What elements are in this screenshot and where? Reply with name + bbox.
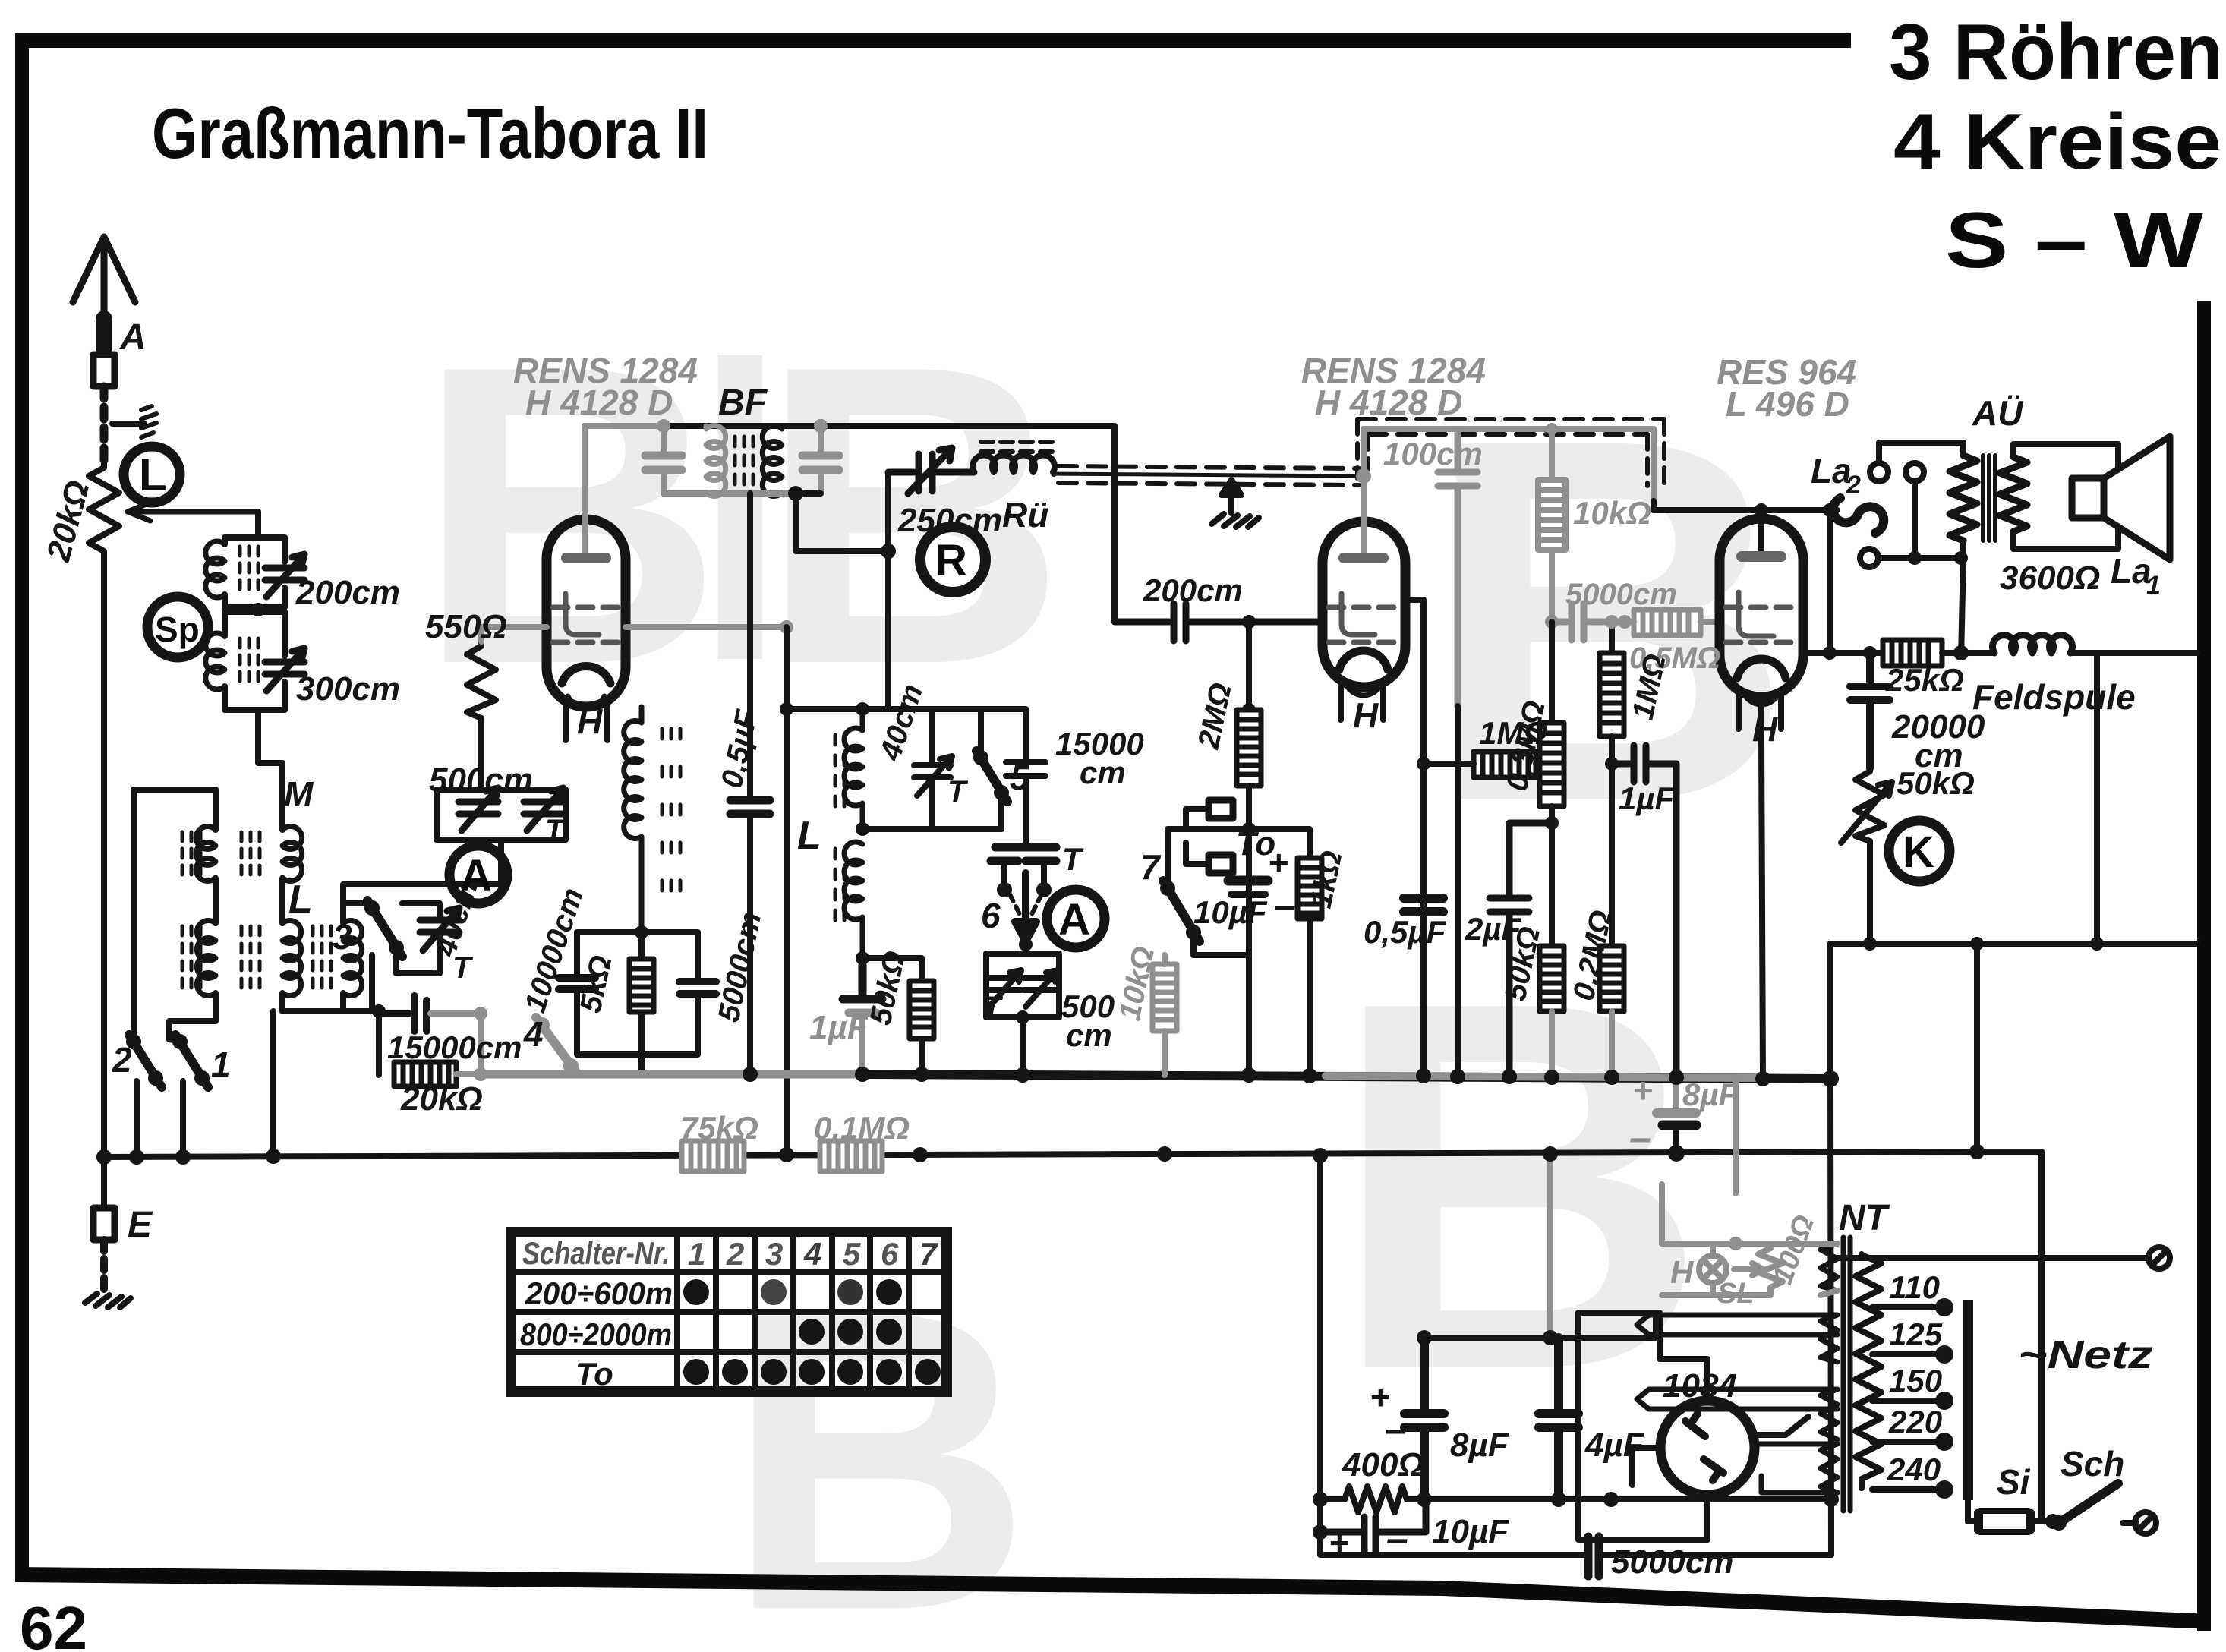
svg-text:0,5µF: 0,5µF bbox=[1364, 914, 1447, 950]
NT core bbox=[1843, 1237, 1850, 1511]
BF core dashes bbox=[735, 437, 753, 484]
third coil core dashes bbox=[313, 926, 331, 988]
svg-text:3 Röhren: 3 Röhren bbox=[1889, 8, 2223, 96]
tube U2 RENS1284 envelope bbox=[1323, 522, 1405, 687]
capacitor 0,5uF bbox=[730, 800, 770, 814]
NT primary winding g3 bbox=[1821, 1389, 1837, 1439]
fuse Si bbox=[1968, 1500, 2050, 1531]
resistor 10kOhm gray (To) bbox=[1152, 964, 1177, 1031]
coil M sec core dashes bbox=[241, 832, 260, 875]
svg-text:20kΩ: 20kΩ bbox=[39, 477, 96, 566]
bus junction dots bbox=[743, 1067, 758, 1082]
trimmer 40cm (at switch 3) bbox=[420, 908, 459, 951]
wire coil-ground vertical bbox=[270, 1011, 276, 1156]
capacitor 20000cm bbox=[1850, 653, 1890, 768]
La2 jack 2 bbox=[1906, 463, 1924, 481]
rectifier filament links bbox=[1754, 1444, 1837, 1493]
svg-text:250cm: 250cm bbox=[897, 502, 1002, 539]
NT bottom exit bbox=[1828, 1500, 1834, 1555]
svg-text:5000cm: 5000cm bbox=[1565, 578, 1677, 611]
svg-text:1µF: 1µF bbox=[1619, 780, 1676, 816]
NT primary winding g4 bbox=[1821, 1444, 1837, 1493]
screen gray wire U1 bbox=[626, 624, 787, 630]
capacitor 200cm bbox=[1115, 604, 1323, 641]
tube U1 anode stem bbox=[582, 426, 588, 553]
speaker La1 horn bbox=[2104, 437, 2170, 560]
net terminal top bbox=[1831, 1255, 2149, 1261]
tube U3 anode plate bar bbox=[1742, 551, 1781, 562]
BF secondary coil bbox=[762, 426, 782, 497]
tube U1 grid box bbox=[566, 594, 599, 635]
coil M secondary (upper right) bbox=[282, 827, 302, 881]
switch3 net to trimmer 40cm bbox=[343, 903, 440, 1011]
resistor 1MOhm horizontal bbox=[1474, 752, 1536, 777]
node below coil bbox=[635, 925, 648, 939]
svg-text:H: H bbox=[1353, 695, 1379, 735]
resistor 0,3MOhm bbox=[1549, 622, 1555, 723]
circle R bbox=[920, 527, 985, 592]
capacitor 0,5uF (V2 screen) bbox=[1404, 898, 1443, 912]
0,5uF line bbox=[747, 493, 753, 1075]
La2 jack 1 bbox=[1870, 463, 1888, 481]
dashed shield verticals bbox=[1357, 419, 1664, 492]
AUe primary zigzag bbox=[1950, 456, 1977, 541]
svg-text:Si: Si bbox=[1997, 1462, 2031, 1502]
grid junction V2 bbox=[1242, 615, 1256, 629]
svg-text:L 496 D: L 496 D bbox=[1726, 384, 1849, 424]
R loop riser bbox=[885, 472, 891, 709]
capacitor 4uF filter bbox=[1539, 1338, 1578, 1499]
svg-text:4µF: 4µF bbox=[1584, 1427, 1644, 1464]
main HT bus bbox=[481, 1070, 862, 1079]
capacitor 8uF filter bbox=[1405, 1338, 1444, 1499]
svg-text:8µF: 8µF bbox=[1682, 1077, 1739, 1112]
tube U2 cathode bbox=[1339, 651, 1388, 670]
wire La2 down bbox=[1827, 510, 1833, 653]
resistor 1kOhm bbox=[1249, 829, 1310, 1075]
left block vertical bbox=[131, 790, 137, 1037]
svg-text:H: H bbox=[1752, 709, 1778, 749]
speaker La1 body bbox=[2072, 478, 2104, 518]
tank2 coil bbox=[206, 633, 225, 689]
To terminal 2 bbox=[1209, 855, 1233, 873]
svg-text:SL: SL bbox=[1717, 1278, 1755, 1310]
trimmer 40cm tank bbox=[914, 709, 952, 829]
terminal A bbox=[93, 355, 115, 386]
wiper arrow of 20kOhm bbox=[128, 503, 258, 521]
table dots row To bbox=[683, 1359, 709, 1385]
rail riser to bus bbox=[1827, 944, 1833, 1079]
svg-text:A: A bbox=[460, 851, 492, 900]
switch 2 bbox=[126, 1034, 141, 1049]
rectifier anode bars bbox=[1685, 1414, 1723, 1480]
vertical from screen node bbox=[784, 627, 790, 1157]
svg-text:2MΩ: 2MΩ bbox=[1192, 680, 1238, 752]
dashed shield top run bbox=[1357, 419, 1664, 434]
svg-text:10kΩ: 10kΩ bbox=[1573, 495, 1651, 531]
svg-text:240: 240 bbox=[1887, 1452, 1941, 1487]
svg-text:2: 2 bbox=[112, 1040, 132, 1080]
terminal E bbox=[93, 1208, 115, 1240]
Rue core dashes bbox=[981, 442, 1052, 452]
AUe secondary zigzag bbox=[2000, 457, 2027, 531]
svg-text:4: 4 bbox=[523, 1014, 544, 1054]
rectifier tube 1084 bbox=[1660, 1401, 1755, 1495]
coil M primary (upper) bbox=[196, 827, 216, 881]
circle Sp bbox=[147, 597, 208, 657]
mains tap 220 bbox=[1872, 1439, 1938, 1445]
svg-text:H: H bbox=[577, 701, 603, 741]
left long vertical wire bbox=[101, 565, 107, 1208]
screen wire V2 bbox=[1405, 600, 1424, 1075]
svg-text:Feldspule: Feldspule bbox=[1972, 677, 2136, 717]
tube U1 RENS1284 envelope bbox=[547, 519, 626, 707]
100cm line lower bbox=[1455, 706, 1461, 1075]
padder trimmer T bbox=[524, 788, 563, 831]
svg-text:100cm: 100cm bbox=[1383, 436, 1483, 471]
1uF gray cap (detector) bbox=[843, 958, 882, 999]
switch 1 bbox=[172, 1034, 188, 1049]
svg-text:L: L bbox=[139, 449, 167, 500]
heater hairpin pair 2 bbox=[1637, 1389, 1837, 1409]
svg-text:NT: NT bbox=[1839, 1198, 1890, 1238]
bottom rail with 5000cm bbox=[1320, 1552, 1831, 1558]
svg-text:7: 7 bbox=[1140, 847, 1162, 887]
tube U3 cathode bbox=[1737, 659, 1786, 678]
svg-text:4: 4 bbox=[803, 1236, 821, 1272]
padder trimmer A bbox=[459, 788, 498, 831]
ground at E bbox=[85, 1294, 131, 1307]
svg-text:A: A bbox=[1058, 895, 1090, 944]
node below detector coil bbox=[856, 951, 869, 965]
svg-text:0,1MΩ: 0,1MΩ bbox=[814, 1110, 910, 1146]
svg-text:125: 125 bbox=[1889, 1316, 1943, 1352]
table dots row 800-2000m bbox=[799, 1319, 825, 1345]
rectifier side lead bbox=[1632, 1417, 1808, 1485]
svg-text:To: To bbox=[575, 1356, 613, 1392]
resistor 0,1MOhm gray bbox=[820, 1141, 882, 1171]
svg-text:R: R bbox=[935, 536, 967, 585]
svg-text:cm: cm bbox=[1080, 755, 1126, 790]
pot down to rail bbox=[1867, 841, 1873, 944]
trimmer pair box bbox=[986, 941, 1059, 1075]
antenna tank 1 loop bbox=[225, 538, 285, 607]
switch 7 bbox=[1160, 881, 1175, 896]
svg-text:400Ω: 400Ω bbox=[1342, 1446, 1424, 1483]
svg-text:BF: BF bbox=[718, 383, 768, 423]
field coil Feldspule bbox=[1993, 635, 2073, 653]
svg-text:3600Ω: 3600Ω bbox=[2000, 560, 2100, 597]
filter feed vertical left bbox=[1317, 1157, 1323, 1555]
rectifier housing wires bbox=[1578, 1313, 1707, 1540]
svg-text:T: T bbox=[452, 951, 474, 985]
svg-text:20kΩ: 20kΩ bbox=[400, 1080, 483, 1118]
svg-text:6: 6 bbox=[981, 896, 1001, 935]
svg-text:T: T bbox=[545, 814, 566, 847]
junction tank1/tank2 bbox=[251, 603, 265, 616]
svg-text:220: 220 bbox=[1888, 1404, 1942, 1439]
wire 550 down to padder rail bbox=[478, 718, 484, 790]
svg-text:La: La bbox=[1811, 451, 1852, 490]
tube U2 grid dashes bbox=[1329, 607, 1395, 642]
resistor 75kOhm gray bbox=[682, 1141, 744, 1171]
NT primary winding g2 bbox=[1821, 1315, 1837, 1362]
svg-text:+: + bbox=[1268, 843, 1288, 882]
antenna tank 2 loop bbox=[225, 612, 285, 710]
takeoff to reaction bbox=[796, 493, 888, 551]
NT secondary zigzag right bbox=[1856, 1254, 1881, 1488]
svg-text:300cm: 300cm bbox=[296, 670, 400, 708]
svg-text:800÷2000m: 800÷2000m bbox=[520, 1316, 672, 1352]
coil L secondary lower bbox=[282, 921, 301, 996]
svg-text:L: L bbox=[288, 878, 313, 922]
gray wire 10k to node bbox=[1549, 550, 1555, 622]
R loop junction bbox=[881, 544, 896, 559]
svg-text:200cm: 200cm bbox=[295, 574, 400, 611]
antenna dashed lead-in bbox=[100, 386, 109, 461]
svg-text:7: 7 bbox=[919, 1236, 938, 1272]
svg-text:5kΩ: 5kΩ bbox=[574, 953, 619, 1016]
wire junction down to bus bbox=[376, 1011, 382, 1075]
frame border top bbox=[15, 33, 1851, 48]
svg-text:50kΩ: 50kΩ bbox=[1897, 765, 1975, 801]
capacitor 10uF electrolytic bbox=[1228, 876, 1268, 886]
tube U2 anode stem gray bbox=[1361, 480, 1367, 554]
frame border right bbox=[2197, 301, 2211, 1631]
capacitor 15000cm bbox=[415, 996, 427, 1031]
svg-text:75kΩ: 75kΩ bbox=[680, 1110, 758, 1146]
capacitor 10uF filter bbox=[1320, 1499, 1426, 1552]
tank1 core dashes bbox=[240, 547, 258, 589]
detector coil core upper bbox=[835, 735, 844, 806]
svg-text:~Netz: ~Netz bbox=[2018, 1333, 2153, 1377]
AUe core bbox=[1983, 456, 1995, 541]
svg-text:5: 5 bbox=[843, 1236, 861, 1272]
coil tap E (third column) bbox=[343, 921, 362, 996]
cathode drop V3 bbox=[1761, 697, 1763, 1079]
switch Sch bbox=[2059, 1483, 2118, 1523]
capacitor 15000cm tank bbox=[1006, 709, 1045, 847]
detector coil core lower bbox=[835, 849, 844, 920]
cathode output wire bbox=[1803, 650, 1881, 656]
svg-text:T: T bbox=[947, 775, 969, 809]
mains feed down bbox=[1830, 1079, 1831, 1555]
bottom right rail bbox=[1830, 941, 2197, 947]
screen node bbox=[780, 620, 793, 634]
coil L primary (lower) bbox=[197, 921, 216, 996]
grid leak chain V2 bbox=[1246, 622, 1252, 1075]
svg-text:2: 2 bbox=[1846, 471, 1861, 500]
svg-text:10µF: 10µF bbox=[1193, 894, 1268, 930]
trimmer T pair left bbox=[988, 970, 1021, 1007]
svg-text:+: + bbox=[1632, 1070, 1653, 1110]
svg-text:B: B bbox=[416, 277, 723, 752]
trimmer 500cm pair right bbox=[1024, 970, 1058, 1007]
svg-text:2: 2 bbox=[726, 1236, 744, 1272]
heater hairpin pair 1 bbox=[1637, 1315, 1837, 1335]
capacitor 5000cm gray bbox=[1552, 604, 1622, 640]
svg-text:3: 3 bbox=[765, 1236, 783, 1272]
coil M top lead bbox=[134, 790, 216, 830]
svg-text:200÷600m: 200÷600m bbox=[525, 1275, 673, 1311]
svg-text:1084: 1084 bbox=[1663, 1367, 1737, 1405]
svg-text:5000cm: 5000cm bbox=[1611, 1543, 1733, 1581]
wire coil E bottom bbox=[340, 993, 346, 1011]
svg-text:S – W: S – W bbox=[1945, 197, 2204, 285]
svg-text:H 4128 D: H 4128 D bbox=[1315, 383, 1462, 422]
gray riser from 15000cm bbox=[430, 1014, 481, 1074]
svg-text:H: H bbox=[1670, 1254, 1695, 1290]
svg-text:La: La bbox=[2111, 551, 2152, 591]
spark gap earth hash bbox=[141, 406, 156, 437]
svg-text:–: – bbox=[1385, 1408, 1407, 1452]
frame border bottom (slanted scan) bbox=[15, 1567, 2211, 1629]
gray anode node V2 bbox=[1356, 468, 1371, 484]
BF bottom junction bbox=[788, 486, 803, 501]
circle K bbox=[1889, 821, 1950, 881]
series link M to L coils bbox=[216, 878, 282, 923]
dashed shield pair horizontal bbox=[1058, 466, 1359, 485]
frame border left bbox=[15, 33, 29, 1581]
svg-text:62: 62 bbox=[20, 1594, 87, 1652]
circle A1 bbox=[449, 846, 507, 903]
capacitor 1uF grid V3 bbox=[1612, 746, 1676, 1079]
spark gap stub bbox=[112, 421, 144, 427]
coil L sec core dashes bbox=[241, 926, 260, 988]
tank2 trimmer 300cm bbox=[265, 648, 304, 691]
svg-text:K: K bbox=[1903, 828, 1934, 877]
bus junctions bbox=[96, 1149, 112, 1165]
svg-text:500cm: 500cm bbox=[429, 761, 533, 799]
switch 6 arrow bbox=[1015, 873, 1036, 941]
resistor 550 Ohm bbox=[467, 640, 496, 718]
wire coil C bottom to switch 1 bbox=[169, 993, 216, 1039]
capacitor 2uF branch bbox=[1490, 823, 1552, 1079]
padding cap T wide bbox=[991, 847, 1056, 861]
svg-text:M: M bbox=[284, 774, 314, 814]
svg-text:Sch: Sch bbox=[2060, 1444, 2124, 1483]
coil L core dashes lower bbox=[182, 926, 200, 988]
trimmer 250cm bbox=[888, 448, 974, 493]
tank bottom rail bbox=[862, 826, 1001, 832]
tank2 core dashes bbox=[240, 638, 258, 681]
wire coil D bottom bbox=[282, 993, 379, 1011]
anode feed corner to output bbox=[1651, 429, 1657, 501]
mains tap 240 bbox=[1872, 1486, 1938, 1493]
anode coupling wire bbox=[664, 423, 1115, 429]
resistor 2MOhm bbox=[1237, 710, 1261, 786]
capacitor 5000cm bottom bbox=[1588, 1537, 1599, 1576]
drop to bottom network bbox=[2094, 653, 2100, 944]
To terminal 1 bbox=[1209, 800, 1233, 818]
switch 3 bbox=[364, 900, 380, 916]
resistor 400 Ohm zigzag bbox=[1345, 1486, 1407, 1512]
svg-text:5: 5 bbox=[1010, 758, 1030, 797]
tap selector bar bbox=[1963, 1300, 1973, 1500]
junction grid bias bbox=[1242, 822, 1256, 836]
speaker loop bbox=[2013, 444, 2118, 549]
BF left cap gray bbox=[661, 426, 667, 493]
capacitor 10000cm bbox=[559, 978, 595, 989]
svg-text:8µF: 8µF bbox=[1450, 1427, 1509, 1464]
detector tank top rail bbox=[862, 706, 1026, 712]
drop from lower bus to switch bbox=[1974, 944, 1980, 1152]
svg-text:5000cm: 5000cm bbox=[712, 909, 768, 1025]
svg-text:AÜ: AÜ bbox=[1972, 393, 2024, 433]
svg-text:A: A bbox=[119, 317, 147, 358]
switch 5 bbox=[978, 709, 984, 755]
antenna arrow bbox=[73, 237, 135, 351]
detector coil L lower bbox=[844, 842, 862, 958]
filter top rail bbox=[1424, 1313, 1656, 1338]
wire tank2 to coil block bbox=[258, 710, 282, 830]
lamp circuit gray bbox=[1662, 1081, 1837, 1295]
resistor 0,5MOhm gray bbox=[1634, 610, 1701, 635]
La2 jack 3 bbox=[1860, 549, 1878, 567]
wire to switch 7 bbox=[1168, 829, 1249, 884]
coupling coil Rue bbox=[973, 456, 1055, 474]
junction D bottom bbox=[372, 1004, 386, 1018]
svg-text:550Ω: 550Ω bbox=[425, 608, 507, 645]
lead below E bbox=[100, 1240, 108, 1292]
cathode coil core dashes bbox=[662, 729, 680, 891]
bias network box wires bbox=[577, 932, 698, 1075]
tube U1 cathode bbox=[562, 666, 610, 683]
svg-text:110: 110 bbox=[1889, 1269, 1940, 1305]
svg-text:1: 1 bbox=[211, 1045, 231, 1084]
cathode coil under U1 bbox=[624, 707, 642, 932]
resistor 10kOhm gray anode bbox=[1538, 480, 1565, 550]
svg-text:T: T bbox=[1062, 841, 1084, 877]
detector coil L upper bbox=[844, 709, 862, 829]
resistor 0,2MOhm vertical bbox=[1600, 946, 1624, 1011]
svg-text:6: 6 bbox=[881, 1236, 899, 1272]
tube U2 anode plate bar bbox=[1344, 553, 1383, 563]
switch 6 contacts bbox=[1004, 865, 1044, 884]
table dots row 200-600m bbox=[683, 1279, 709, 1305]
mains tap 110 bbox=[1872, 1304, 1938, 1310]
svg-text:150: 150 bbox=[1889, 1363, 1942, 1398]
tube U1 heater legs bbox=[566, 707, 607, 740]
potentiometer 50kOhm bbox=[1856, 768, 1884, 841]
filter feed vertical mid gray bbox=[1547, 1157, 1553, 1338]
capacitor 5000cm bbox=[679, 982, 716, 994]
svg-text:L: L bbox=[797, 814, 821, 858]
svg-text:Schalter-Nr.: Schalter-Nr. bbox=[522, 1235, 670, 1271]
tank1 coil bbox=[206, 541, 225, 597]
tube U3 grid box bbox=[1739, 592, 1774, 636]
switch 4 gray bbox=[534, 1017, 550, 1032]
50kOhm grid leak bbox=[862, 958, 922, 1075]
NT primary winding g1 bbox=[1821, 1244, 1837, 1291]
svg-text:E: E bbox=[128, 1205, 153, 1245]
field coil to frame bbox=[2070, 650, 2197, 656]
lower bus bbox=[104, 1152, 2042, 1157]
grid gray wire U1 bbox=[481, 627, 547, 642]
BF bottom rail bbox=[664, 490, 796, 497]
wire coil E top to switch 3 bbox=[343, 903, 367, 923]
coil M core dashes bbox=[182, 832, 200, 875]
svg-text:1µF: 1µF bbox=[809, 1009, 869, 1046]
antenna lead bar bbox=[96, 319, 112, 348]
ground below shield bbox=[1222, 480, 1241, 513]
resistor 25kOhm bbox=[1883, 640, 1942, 666]
circle L bbox=[124, 446, 180, 503]
tube U3 heater legs bbox=[1739, 697, 1781, 729]
svg-text:1: 1 bbox=[2146, 571, 2161, 600]
svg-text:cm: cm bbox=[1066, 1017, 1112, 1053]
potentiometer 20kOhm zigzag bbox=[89, 459, 119, 565]
